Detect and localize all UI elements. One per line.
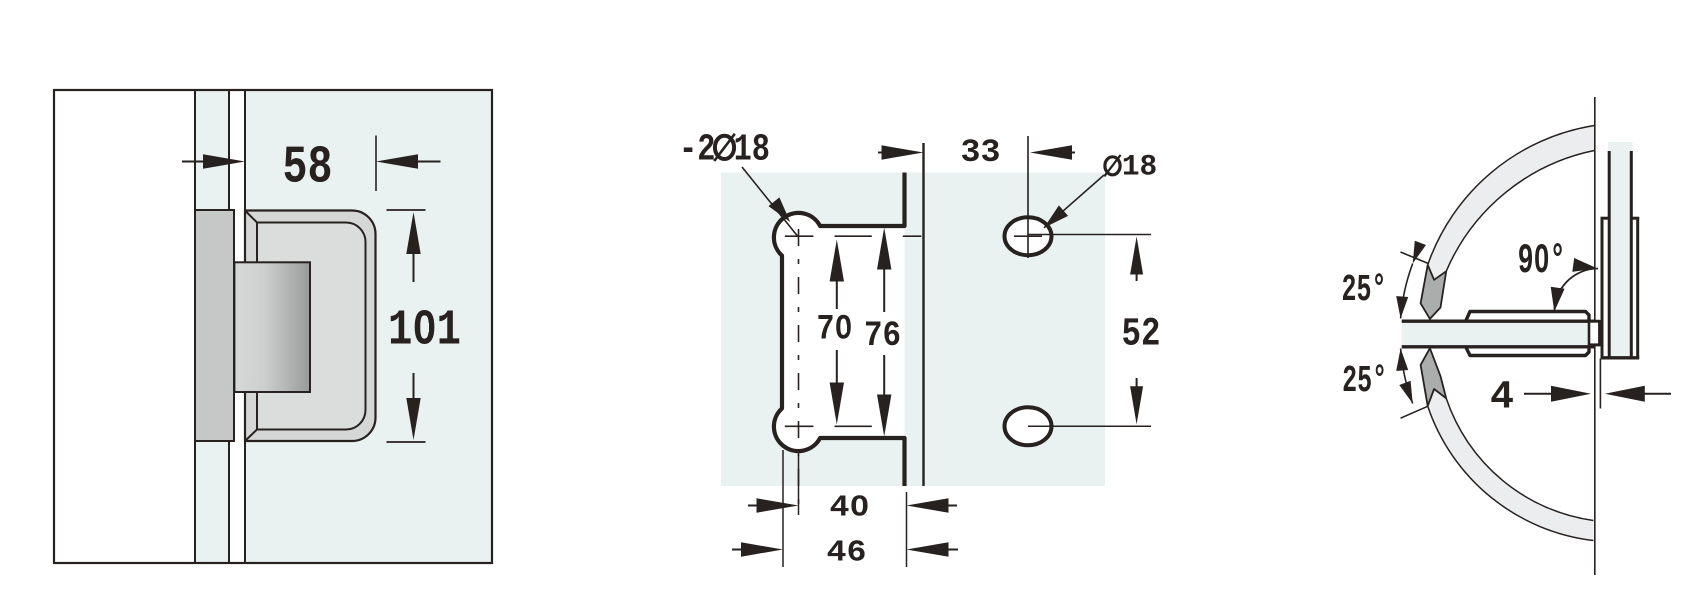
dim 101 top tick	[387, 209, 426, 211]
dim 46 left ext line	[782, 450, 784, 567]
door swing band lower	[1428, 398, 1594, 540]
zero dot cover 40	[857, 503, 862, 510]
dim 58 left arrow	[182, 161, 215, 163]
door glass edge line (front)	[922, 143, 924, 486]
door swing band upper	[1428, 126, 1595, 272]
left view: outer frame (wall + glass outline)	[54, 90, 492, 563]
dim 70 up arrow	[830, 240, 844, 282]
25deg arc arrowhead down	[1396, 296, 1408, 318]
dim 40 left arrow	[748, 505, 758, 507]
hinge clamp (open, top view)	[1465, 312, 1599, 356]
zero dot cover 70	[842, 325, 848, 333]
dim 4 extension line	[1599, 359, 1601, 409]
swing direction chevron upper	[1421, 265, 1447, 319]
hinge body inner panel	[257, 223, 366, 430]
dim 33 left arrow	[878, 152, 890, 154]
zero dot cover 101	[421, 323, 429, 332]
25deg arc arrowhead up	[1413, 241, 1426, 264]
dim 4 right arrow	[1605, 386, 1645, 402]
hinge wall foot	[1589, 321, 1599, 344]
hinge body top-left bevel	[245, 211, 257, 223]
25deg angle arc upper	[1401, 264, 1413, 319]
svg-text:25°: 25°	[1342, 360, 1387, 403]
dim 52 bottom extension line	[1028, 425, 1151, 427]
dim 58 right arrow	[376, 154, 418, 168]
90deg angle arc	[1555, 269, 1599, 313]
vertical centerline through pivot holes	[798, 224, 800, 515]
glass hole bottom (oval)	[1005, 407, 1052, 445]
hinge body bottom-left bevel	[245, 430, 257, 442]
svg-text:52: 52	[1122, 313, 1161, 358]
dim 101 down arrow	[413, 373, 415, 400]
25deg arc arrowhead down2	[1399, 381, 1412, 404]
hinge wall plate	[195, 210, 234, 441]
top hole horizontal centerline	[785, 235, 814, 237]
wall / closed door plane line	[1594, 97, 1596, 575]
bottom hole horizontal centerline	[785, 425, 814, 427]
dim 46 right arrow	[907, 542, 949, 556]
hinge body outer	[245, 211, 376, 442]
dim 40 left ext line	[798, 455, 800, 515]
left view: door glass panel	[245, 90, 492, 563]
svg-text:46: 46	[827, 535, 867, 570]
dim 52 top extension line	[1028, 234, 1151, 236]
25deg tick upper	[1401, 252, 1428, 263]
dim 40/46 right ext line	[906, 492, 908, 567]
svg-text:4: 4	[1490, 376, 1514, 421]
leader line O18	[1044, 175, 1104, 228]
dim 46 left arrow	[732, 549, 741, 551]
glass hole top (oval)	[1005, 217, 1052, 255]
svg-text:58: 58	[283, 138, 333, 198]
dim 70 down arrow	[836, 350, 838, 388]
dim 101 bottom tick	[387, 441, 426, 443]
dim 76 down arrow	[883, 355, 885, 399]
90deg arrowhead down	[1551, 287, 1565, 312]
door glass (open position)	[1402, 322, 1595, 346]
leader line -2O18	[742, 167, 798, 236]
25deg tick lower	[1401, 406, 1428, 418]
front view: door glass panel	[721, 173, 1105, 487]
dim 4 left arrow	[1524, 393, 1554, 395]
top hole center tick	[1014, 235, 1042, 237]
left view: fixed glass panel strip	[195, 90, 229, 563]
wall plane crop	[1596, 0, 1691, 598]
90deg arrowhead right	[1572, 258, 1597, 272]
door swing band lower notch fill	[1428, 389, 1447, 406]
svg-text:40: 40	[830, 491, 870, 526]
hinge clamp (closed position)	[1601, 217, 1604, 359]
dim 52 down arrow	[1136, 378, 1138, 390]
dim 101 up arrow	[406, 212, 420, 254]
swing direction chevron lower	[1421, 348, 1447, 406]
left view: fixed glass left edge	[194, 90, 196, 563]
dim 33 right arrow	[1030, 145, 1072, 159]
left view: fixed glass right edge	[228, 90, 230, 563]
25deg arc arrowhead up2	[1396, 349, 1408, 371]
25deg angle arc lower	[1401, 349, 1413, 404]
zero dot cover 90	[1539, 254, 1544, 262]
dim 40 right arrow	[907, 498, 949, 512]
svg-text:25°: 25°	[1342, 269, 1387, 312]
svg-text:70: 70	[817, 310, 853, 350]
hinge mounting plate outline (front)	[774, 173, 905, 487]
dim 58 right extension line	[375, 136, 377, 192]
svg-text:33: 33	[961, 134, 1001, 171]
dim 52 up arrow	[1130, 237, 1143, 275]
door swing band upper notch fill	[1428, 265, 1447, 280]
svg-text:76: 76	[864, 316, 901, 356]
dim 76 up arrow	[877, 228, 891, 270]
door glass (closed position)	[1608, 142, 1633, 357]
left view: door glass left edge	[244, 90, 246, 563]
top hole vertical centerline	[1027, 136, 1029, 258]
